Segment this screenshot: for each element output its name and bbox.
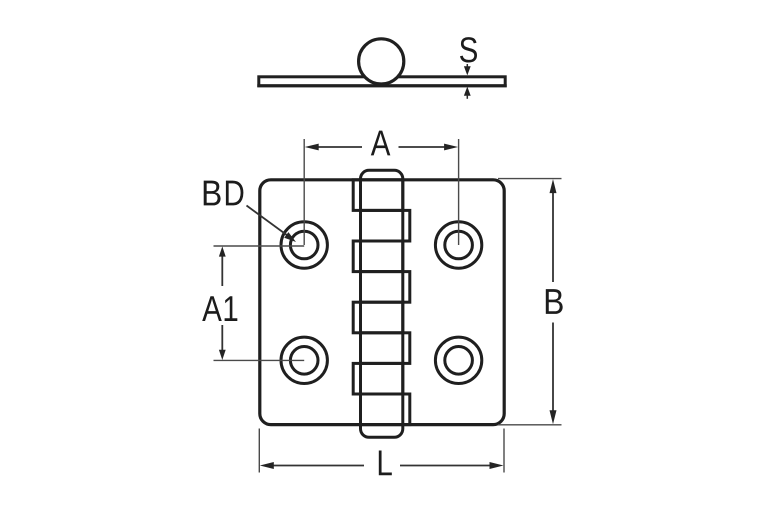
knuckle segment 2 (right leaf)	[361, 210, 410, 241]
knuckle segment 8 (right leaf)	[361, 394, 410, 425]
knuckle segment 3 (left leaf)	[353, 241, 403, 272]
dimension B extension line bottom	[498, 424, 562, 426]
screw hole top-right	[435, 222, 481, 268]
side view leaf plate	[259, 77, 505, 86]
label BD	[204, 181, 244, 206]
label S	[460, 37, 477, 62]
knuckle segment 6 (right leaf)	[361, 333, 410, 364]
knuckle segment 5 (left leaf)	[353, 302, 403, 333]
pin capsule	[361, 170, 403, 437]
screw hole top-left	[281, 222, 327, 268]
dimension L line	[260, 462, 504, 469]
label A	[371, 131, 391, 156]
dimension A extension line right	[458, 139, 460, 245]
label A1	[202, 296, 237, 321]
BD leader line	[247, 206, 297, 243]
dimension A1 extension line bottom	[214, 359, 305, 361]
dimension A line	[305, 144, 458, 151]
dimension S upper arrow	[464, 64, 471, 75]
screw hole bottom-left	[281, 337, 327, 383]
label B	[546, 289, 563, 314]
side view pin barrel circle	[359, 39, 404, 84]
label L	[379, 451, 392, 476]
hinge body outline	[260, 180, 504, 425]
knuckle segment 7 (left leaf)	[353, 363, 403, 394]
dimension S lower arrow	[464, 87, 471, 99]
side view bottom surface line	[257, 84, 506, 87]
dimension A1 extension line top	[214, 245, 305, 247]
dimension L extension line left	[258, 429, 260, 473]
knuckle segment 1 (left leaf)	[353, 180, 403, 211]
dimension L extension line right	[503, 429, 505, 473]
dimension A1 line	[219, 246, 226, 360]
dimension B extension line top	[498, 178, 562, 180]
dimension B line	[550, 179, 557, 424]
screw hole bottom-right	[435, 337, 481, 383]
knuckle segment 4 (right leaf)	[361, 272, 410, 303]
dimension A extension line left	[303, 139, 305, 245]
